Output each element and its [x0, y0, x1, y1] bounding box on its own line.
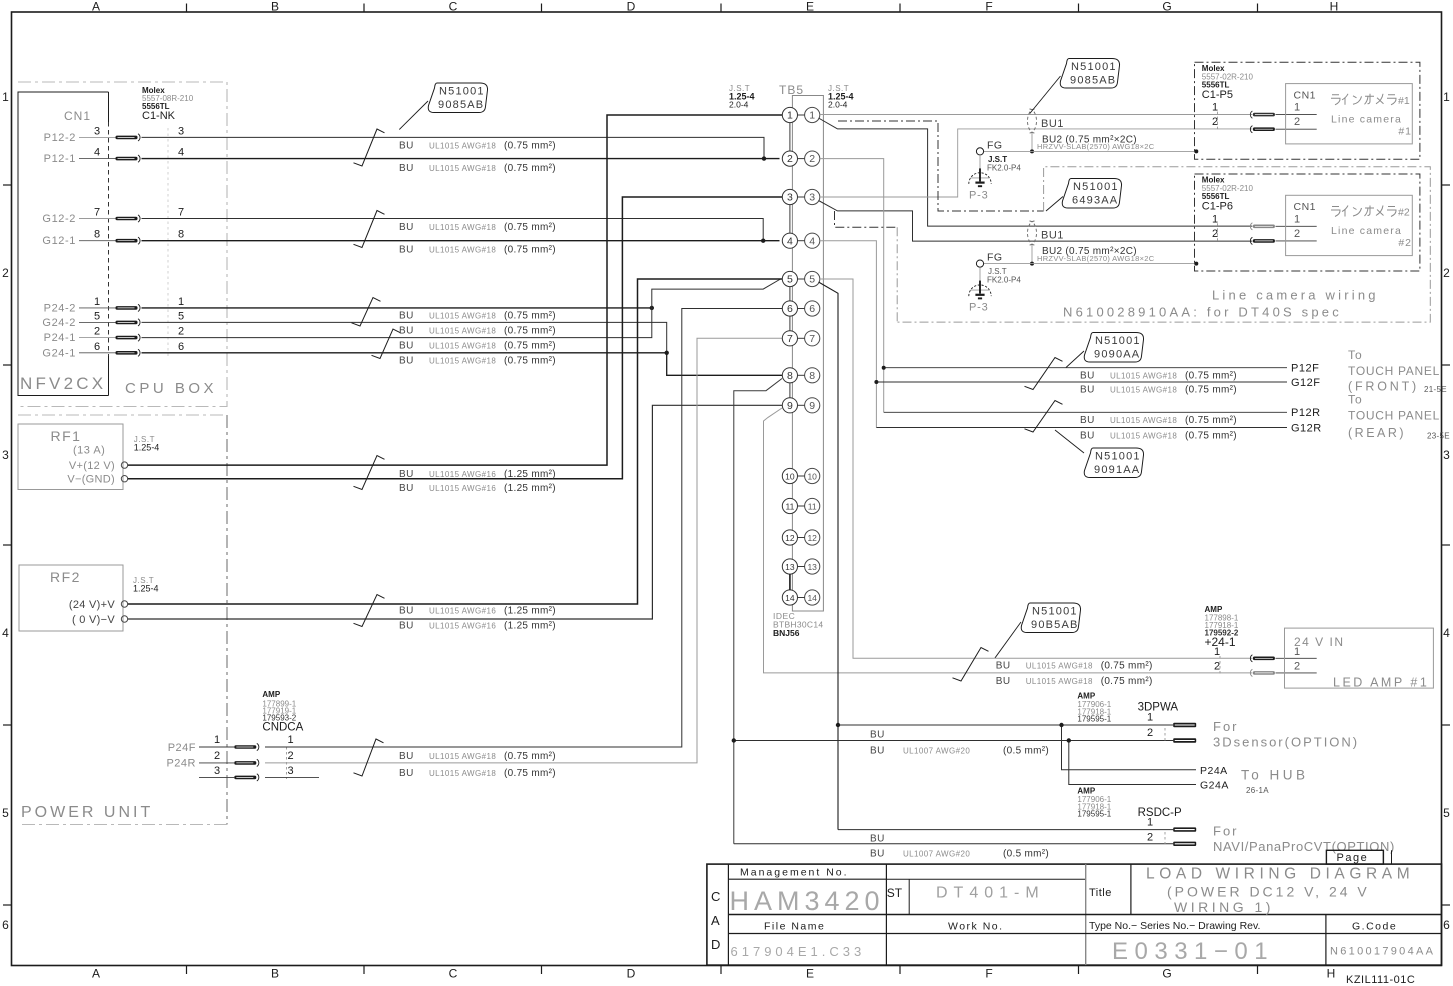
3DPWA contact pin1 — [1173, 723, 1196, 727]
CNDCA boundary dotted line — [286, 747, 288, 779]
svg-text:To HUB: To HUB — [1241, 768, 1309, 783]
svg-text:RF1: RF1 — [51, 428, 82, 444]
camera #1 katakana name — [1331, 94, 1410, 107]
svg-text:1: 1 — [2, 90, 9, 104]
svg-text:TOUCH PANEL: TOUCH PANEL — [1348, 408, 1440, 422]
cable tag N51001 90B5AB (LED amp) — [1021, 603, 1080, 633]
CNDCA contact pin 3 — [234, 774, 259, 781]
RF2 +V terminal — [69, 599, 128, 611]
RF2 terminal type J.S.T 1.25-4 — [133, 576, 159, 594]
svg-text:(13 A): (13 A) — [73, 445, 105, 457]
RSDC-P contact pin2 — [1173, 842, 1196, 846]
CN1 contact pin 1 — [116, 304, 141, 311]
svg-text:3: 3 — [809, 192, 815, 204]
break on RF1 wires — [354, 456, 385, 490]
leader line tag camera1 — [1030, 76, 1061, 114]
wire label BU P24-2 — [399, 311, 556, 322]
CN1 pin 1 P24-2 — [44, 296, 116, 315]
wire TB5-1 to camera2 pin1 — [819, 118, 1253, 226]
junction dot camera1 FG at box — [1194, 149, 1198, 153]
svg-text:UL1015 AWG#18: UL1015 AWG#18 — [429, 312, 496, 321]
RF1 V- terminal — [67, 474, 127, 486]
TB5 left lug labels J.S.T 1.25-4 2.0-4 — [729, 84, 755, 110]
svg-text:3: 3 — [214, 765, 220, 777]
break on P12 wires — [354, 129, 385, 166]
CAD label — [711, 889, 720, 952]
svg-text:8: 8 — [94, 229, 100, 241]
svg-text:UL1015 AWG#18: UL1015 AWG#18 — [1110, 432, 1177, 441]
svg-text:6: 6 — [94, 341, 100, 353]
svg-text:TOUCH PANEL: TOUCH PANEL — [1348, 364, 1440, 378]
wire P24-1 up to junction — [142, 308, 652, 338]
TB5 terminal 3 — [782, 189, 820, 204]
svg-text:2.0-4: 2.0-4 — [729, 100, 749, 110]
svg-text:TB5: TB5 — [779, 83, 804, 97]
svg-text:UL1015 AWG#18: UL1015 AWG#18 — [1110, 416, 1177, 425]
svg-text:N51001: N51001 — [1095, 335, 1141, 347]
wire GND trunk down — [734, 379, 782, 844]
wire label BU 3DPWA2 — [870, 746, 1049, 757]
junction dot P12F — [882, 366, 886, 370]
svg-text:LOAD WIRING DIAGRAM: LOAD WIRING DIAGRAM — [1146, 866, 1414, 883]
TB5 terminal 12 — [782, 530, 820, 545]
leader line tag camera2 — [1046, 197, 1063, 212]
cable tag N51001 9085AB (camera1) — [1060, 59, 1119, 89]
svg-text:14: 14 — [785, 593, 795, 603]
svg-text:2: 2 — [178, 326, 184, 338]
svg-text:Work No.: Work No. — [948, 921, 1004, 933]
camera #2 contact pin2 — [1250, 237, 1275, 244]
svg-text:C: C — [711, 889, 720, 904]
svg-text:Management No.: Management No. — [740, 867, 849, 879]
camera #2 pin wires inside — [1276, 226, 1317, 241]
CN1 contact pin 2 — [116, 334, 141, 341]
svg-text:UL1015 AWG#18: UL1015 AWG#18 — [429, 752, 496, 761]
svg-text:2: 2 — [1294, 116, 1300, 128]
break on touch front wires — [1025, 358, 1063, 390]
svg-text:(0.75 mm²): (0.75 mm²) — [1101, 676, 1153, 687]
frame column labels bottom A-H — [92, 967, 1335, 981]
svg-text:8: 8 — [809, 370, 815, 382]
svg-text:5: 5 — [1443, 806, 1450, 820]
CN1 contact pin 3 — [116, 134, 141, 141]
svg-text:4: 4 — [94, 147, 100, 159]
svg-text:3DPWA: 3DPWA — [1138, 702, 1179, 714]
svg-text:E: E — [806, 0, 814, 14]
svg-text:CN1: CN1 — [1294, 89, 1317, 101]
svg-text:V+(12 V): V+(12 V) — [69, 460, 115, 472]
svg-text:1.25-4: 1.25-4 — [133, 584, 159, 594]
svg-text:1: 1 — [1294, 213, 1300, 225]
svg-text:3: 3 — [178, 125, 184, 137]
camera #2 internal pin numbers — [1294, 213, 1300, 240]
cable marker camera1 — [1028, 109, 1037, 133]
svg-text:23-5E: 23-5E — [1427, 432, 1450, 441]
svg-text:6: 6 — [809, 303, 815, 315]
wire G24A to HUB — [1069, 741, 1196, 785]
wire G24 pair to TB5-8 — [667, 353, 782, 376]
svg-text:BU: BU — [870, 746, 885, 757]
svg-text:UL1015 AWG#16: UL1015 AWG#16 — [429, 622, 496, 631]
svg-text:UL1015 AWG#18: UL1015 AWG#18 — [429, 327, 496, 336]
svg-text:(0.5 mm²): (0.5 mm²) — [1003, 746, 1049, 757]
svg-text:617904E1.C33: 617904E1.C33 — [731, 944, 866, 959]
svg-text:To: To — [1348, 393, 1363, 407]
svg-text:2: 2 — [2, 266, 9, 280]
wire label BU LED2 — [996, 676, 1153, 687]
wire label BU RSDC2 — [870, 849, 1049, 860]
line camera wiring group box dash-dot — [897, 167, 1430, 322]
CN1 contact pin 5 — [116, 319, 141, 326]
svg-text:(0.5 mm²): (0.5 mm²) — [1003, 849, 1049, 860]
TB5 jumper 13-14 — [789, 574, 791, 590]
svg-text:BU: BU — [399, 311, 414, 322]
break on P24-2/G24-2 wires — [352, 298, 381, 327]
wire label BU RF2 +V — [399, 606, 556, 617]
wire TB5-4 to G12R — [876, 427, 1287, 429]
destination To HUB — [1241, 768, 1309, 796]
svg-text:G: G — [1162, 967, 1171, 981]
wire label BU P12-1 — [399, 163, 556, 174]
wire P24 pair to TB5-5 diagonal entry — [652, 279, 781, 308]
wire label BU G12-2 — [399, 222, 556, 233]
wire TB5-1 to camera1 pin1 — [820, 114, 1253, 116]
break on RF2 wires — [354, 595, 385, 627]
svg-text:179595-1: 179595-1 — [1077, 810, 1111, 819]
wire label BU G12F — [1080, 385, 1237, 396]
svg-text:G12F: G12F — [1291, 377, 1321, 389]
svg-text:CN1: CN1 — [1294, 201, 1317, 213]
svg-text:BU: BU — [870, 834, 885, 845]
wire RF2 +V to TB5-5 — [128, 279, 782, 604]
svg-text:P24F: P24F — [168, 742, 196, 754]
frame row ticks right — [1442, 185, 1451, 905]
camera #1 contact pin1 — [1250, 111, 1275, 118]
destination For 3Dsensor (OPTION) — [1213, 719, 1359, 750]
RSDC-P boundary dotted — [1164, 832, 1166, 846]
CN1 pin 7 G12-2 — [42, 207, 115, 226]
CN1 contact pin 6 — [116, 349, 141, 356]
svg-text:Line camera: Line camera — [1331, 225, 1402, 237]
svg-text:(1.25 mm²): (1.25 mm²) — [504, 606, 556, 617]
TB5 terminal 7 — [782, 331, 820, 346]
svg-text:BU: BU — [996, 661, 1011, 672]
connector CNDCA part labels (AMP) — [262, 690, 303, 734]
svg-text:UL1015 AWG#16: UL1015 AWG#16 — [429, 470, 496, 479]
svg-text:A: A — [92, 967, 100, 981]
RSDC-P pin numbers — [1147, 817, 1153, 844]
TB5 terminal 11 — [782, 498, 820, 513]
wire TB5-2 to P12R — [884, 411, 1287, 413]
cable marker camera2 — [1028, 221, 1037, 245]
svg-text:1: 1 — [1147, 712, 1153, 724]
svg-text:For: For — [1213, 719, 1239, 734]
svg-text:1: 1 — [287, 734, 293, 746]
TB5 terminal 14 — [782, 590, 820, 605]
wire label BU RF1 V- — [399, 483, 556, 494]
leader line tag touch rear — [1055, 430, 1084, 453]
svg-text:#2: #2 — [1398, 207, 1410, 219]
svg-text:N51001: N51001 — [1071, 61, 1117, 73]
svg-text:6: 6 — [1443, 918, 1450, 932]
frame column ticks top — [187, 4, 1258, 13]
svg-text:6493AA: 6493AA — [1072, 195, 1118, 207]
svg-text:BU: BU — [399, 326, 414, 337]
svg-text:FK2.0-P4: FK2.0-P4 — [987, 164, 1021, 173]
svg-text:C: C — [449, 967, 458, 981]
svg-text:5: 5 — [178, 310, 184, 322]
camera #2 connector boundary dotted — [1217, 223, 1219, 243]
svg-text:2: 2 — [1214, 661, 1220, 673]
svg-text:(0.75 mm²): (0.75 mm²) — [504, 326, 556, 337]
svg-text:P24A: P24A — [1200, 765, 1228, 777]
svg-text:BNJ56: BNJ56 — [773, 628, 800, 638]
svg-text:P12R: P12R — [1291, 407, 1321, 419]
svg-text:G24-2: G24-2 — [42, 317, 76, 329]
cable tag N51001 6493AA (camera2) — [1062, 179, 1121, 209]
CN1 contact pin 7 — [116, 215, 141, 222]
power supply RF2 box — [19, 565, 123, 631]
3DPWA contact pin2 — [1173, 738, 1196, 742]
svg-text:HRZVV-SLAB(2570) AWG18×2C: HRZVV-SLAB(2570) AWG18×2C — [1037, 254, 1155, 263]
CPU unit NFV2CX box — [18, 92, 109, 396]
svg-text:DT401-M: DT401-M — [936, 885, 1045, 902]
frame row labels left 1-6 — [2, 90, 9, 932]
svg-text:P12-1: P12-1 — [44, 153, 76, 165]
svg-text:(0.75 mm²): (0.75 mm²) — [504, 751, 556, 762]
svg-text:1: 1 — [94, 296, 100, 308]
svg-text:N51001: N51001 — [1032, 606, 1078, 618]
svg-text:D: D — [627, 0, 636, 14]
svg-text:N51001: N51001 — [439, 86, 485, 98]
wire TB5-4 down to touch panels — [820, 241, 877, 428]
svg-text:Title: Title — [1089, 887, 1112, 899]
CN1 pin 5 G24-2 — [42, 310, 115, 329]
svg-text:90B5AB: 90B5AB — [1031, 619, 1079, 631]
wire G24-1 to junction — [142, 352, 667, 354]
svg-text:11: 11 — [785, 502, 794, 512]
TB5 terminal 1 — [782, 107, 820, 122]
TB5 jumper 5-6 — [789, 287, 791, 301]
LED amp pin numbers — [1214, 646, 1220, 673]
leader line tag LED amp — [995, 622, 1021, 658]
camera2 cable shield drain wire — [1031, 245, 1033, 264]
svg-text:File Name: File Name — [764, 921, 825, 933]
CNDCA pin 3 (unused) — [199, 765, 234, 777]
CN1 pin 4 P12-1 — [44, 147, 116, 166]
CN1 pin 8 G12-1 — [42, 229, 115, 248]
TB5 jumper 3-4 — [789, 205, 791, 234]
svg-text:FG: FG — [987, 252, 1003, 264]
wire TB5-2 to P12F — [884, 367, 1287, 369]
LED amp pin wires inside — [1276, 658, 1317, 673]
svg-text:4: 4 — [2, 626, 9, 640]
LED amp contact pin2 — [1250, 669, 1275, 676]
FG lug type J.S.T FK2.0-P4 camera1 — [987, 155, 1021, 173]
wire RF2 -V to TB5-9 — [128, 405, 782, 619]
svg-text:UL1015 AWG#18: UL1015 AWG#18 — [429, 164, 496, 173]
svg-text:(REAR): (REAR) — [1348, 426, 1406, 440]
svg-text:BU1: BU1 — [1041, 230, 1064, 242]
svg-text:11: 11 — [808, 502, 817, 512]
leader line tag CN1 — [399, 101, 428, 130]
svg-text:(24 V)+V: (24 V)+V — [69, 599, 115, 611]
svg-text:2: 2 — [287, 750, 293, 762]
wire TB5-4 to G12F — [876, 381, 1287, 383]
frame column ticks bottom — [187, 966, 1258, 975]
TB5 jumper 1-2 — [789, 123, 791, 151]
svg-text:UL1015 AWG#18: UL1015 AWG#18 — [429, 769, 496, 778]
wire label BU P24F — [399, 751, 556, 762]
connector +24-1 part labels (AMP) — [1205, 605, 1239, 649]
RF1 terminal type J.S.T 1.25-4 — [134, 435, 160, 453]
svg-text:BU: BU — [996, 676, 1011, 687]
junction dot G12-2/G12-1 — [761, 239, 765, 243]
svg-text:4: 4 — [809, 235, 815, 247]
svg-text:A: A — [92, 0, 100, 14]
connector 3DPWA part labels (AMP) — [1077, 692, 1111, 724]
svg-text:5: 5 — [787, 274, 793, 286]
camera1 harness dash-dot boundary — [838, 121, 1044, 211]
junction dot P24A — [1059, 723, 1063, 727]
break on G12 wires — [354, 211, 385, 248]
wire G12-1 to TB5-4 — [142, 240, 780, 242]
svg-text:BU: BU — [399, 341, 414, 352]
svg-text:BU: BU — [399, 621, 414, 632]
svg-text:(1.25 mm²): (1.25 mm²) — [504, 483, 556, 494]
svg-text:BU: BU — [399, 163, 414, 174]
wire label BU P24R — [399, 768, 556, 779]
svg-text:1: 1 — [178, 296, 184, 308]
svg-text:P24R: P24R — [166, 757, 196, 769]
svg-text:3Dsensor(OPTION): 3Dsensor(OPTION) — [1213, 735, 1359, 750]
junction dot shield camera1 — [1030, 149, 1034, 153]
svg-text:RSDC-P: RSDC-P — [1138, 807, 1182, 819]
svg-text:Type No.− Series No.− Drawing: Type No.− Series No.− Drawing Rev. — [1089, 920, 1260, 932]
FG lug type J.S.T FK2.0-P4 camera2 — [987, 267, 1021, 285]
camera1 cable shield drain wire — [1031, 133, 1033, 151]
svg-text:UL1007 AWG#20: UL1007 AWG#20 — [903, 850, 970, 859]
svg-text:To: To — [1348, 348, 1363, 362]
camera #1 body box — [1286, 84, 1413, 144]
wire TB5-5 24V trunk down — [819, 282, 839, 830]
svg-text:BU: BU — [870, 730, 885, 741]
LED amp connector boundary dotted — [1219, 656, 1221, 674]
svg-text:BU: BU — [399, 751, 414, 762]
svg-text:CN1: CN1 — [64, 109, 91, 123]
wire P24-2 to junction — [142, 307, 652, 309]
svg-text:BU: BU — [399, 606, 414, 617]
svg-text:9085AB: 9085AB — [438, 99, 484, 111]
svg-text:1: 1 — [809, 110, 815, 122]
svg-text:BU: BU — [870, 849, 885, 860]
svg-text:(0.75 mm²): (0.75 mm²) — [504, 311, 556, 322]
svg-text:G24-1: G24-1 — [42, 347, 76, 359]
svg-text:1: 1 — [214, 734, 220, 746]
svg-text:8: 8 — [178, 229, 184, 241]
svg-text:2: 2 — [809, 153, 815, 165]
svg-text:(0.75 mm²): (0.75 mm²) — [504, 163, 556, 174]
svg-text:10: 10 — [785, 472, 795, 482]
svg-text:(0.75 mm²): (0.75 mm²) — [1185, 431, 1237, 442]
svg-text:BU: BU — [1080, 371, 1095, 382]
svg-text:UL1015 AWG#18: UL1015 AWG#18 — [1026, 677, 1093, 686]
svg-text:(0.75 mm²): (0.75 mm²) — [504, 341, 556, 352]
junction dot camera2 FG at box — [1194, 262, 1198, 266]
svg-text:(0.75 mm²): (0.75 mm²) — [1101, 661, 1153, 672]
svg-text:24 V IN: 24 V IN — [1294, 635, 1345, 649]
frame column labels top A-H — [92, 0, 1338, 14]
svg-text:1: 1 — [787, 110, 793, 122]
svg-text:(0.75 mm²): (0.75 mm²) — [504, 141, 556, 152]
svg-text:UL1015 AWG#18: UL1015 AWG#18 — [429, 342, 496, 351]
svg-text:UL1015 AWG#16: UL1015 AWG#16 — [429, 484, 496, 493]
LED AMP #1 body box — [1285, 628, 1434, 688]
svg-text:E0331−01: E0331−01 — [1112, 938, 1274, 965]
svg-text:7: 7 — [94, 207, 100, 219]
Page box — [1326, 850, 1391, 864]
svg-text:For: For — [1213, 824, 1239, 839]
svg-text:2: 2 — [1443, 266, 1450, 280]
TB5 terminal 10 — [782, 468, 820, 483]
svg-text:(0.75 mm²): (0.75 mm²) — [1185, 385, 1237, 396]
svg-text:UL1015 AWG#18: UL1015 AWG#18 — [429, 142, 496, 151]
svg-text:A: A — [711, 913, 720, 928]
svg-text:3: 3 — [94, 125, 100, 137]
svg-text:2: 2 — [787, 153, 793, 165]
camera2 harness dash-dot boundary — [835, 211, 898, 227]
svg-text:CPU BOX: CPU BOX — [125, 380, 217, 397]
svg-text:FG: FG — [987, 140, 1003, 152]
CNDCA pin 3 wire number and stub — [265, 765, 319, 777]
break on P24-1/G24-1 wires — [372, 329, 401, 359]
svg-text:BU: BU — [399, 141, 414, 152]
svg-text:4: 4 — [787, 235, 793, 247]
wire RF1 V- to TB5-3 — [128, 197, 782, 479]
svg-text:3: 3 — [787, 192, 793, 204]
svg-text:2: 2 — [214, 750, 220, 762]
title block outline — [707, 864, 1442, 965]
svg-text:N51001: N51001 — [1095, 451, 1141, 463]
TB5 terminal 4 — [782, 233, 820, 248]
camera #2 connector labels Molex C1-P6 — [1202, 176, 1254, 213]
svg-text:(1.25 mm²): (1.25 mm²) — [504, 621, 556, 632]
svg-text:UL1015 AWG#18: UL1015 AWG#18 — [1110, 372, 1177, 381]
TB5 terminal 5 — [782, 271, 820, 286]
svg-text:1: 1 — [1294, 102, 1300, 114]
svg-text:10: 10 — [807, 472, 817, 482]
wire TB5-9 to LED amp pin2 — [764, 408, 1253, 673]
wire TB5-2 down to touch panels — [820, 159, 884, 413]
TB5 terminal 2 — [782, 151, 820, 166]
svg-text:5: 5 — [94, 310, 100, 322]
TB5 jumper 6-7 — [789, 316, 791, 331]
svg-text:G24A: G24A — [1200, 780, 1229, 792]
svg-text:C1-NK: C1-NK — [142, 110, 176, 122]
wire label BU LED1 — [996, 661, 1153, 672]
svg-text:G12-1: G12-1 — [42, 235, 76, 247]
wire P12-1 to TB5-2 — [142, 158, 780, 160]
svg-text:AMP: AMP — [262, 690, 280, 699]
svg-text:RF2: RF2 — [50, 569, 81, 585]
svg-text:HRZVV-SLAB(2570) AWG18×2C: HRZVV-SLAB(2570) AWG18×2C — [1037, 142, 1155, 151]
svg-text:D: D — [711, 937, 720, 952]
svg-text:6: 6 — [2, 918, 9, 932]
camera #2 katakana name — [1331, 206, 1410, 219]
svg-text:WIRING 1): WIRING 1) — [1174, 899, 1274, 915]
svg-text:179595-1: 179595-1 — [1077, 715, 1111, 724]
camera #1 contact pin2 — [1250, 126, 1275, 133]
